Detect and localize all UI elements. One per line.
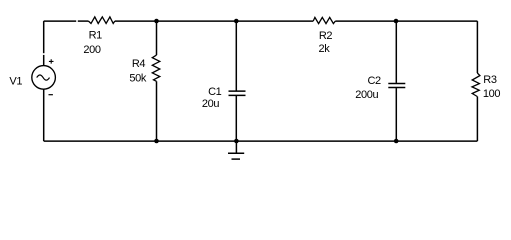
node C1 top junction xyxy=(234,19,239,24)
node R4 bottom junction xyxy=(154,139,159,144)
capacitor C1 xyxy=(229,91,246,95)
voltage source V1 xyxy=(32,66,56,90)
resistor R2 xyxy=(313,17,335,23)
wire top rail right segment xyxy=(335,20,477,22)
wire C2 bottom lead xyxy=(395,88,397,141)
svg-text:50k: 50k xyxy=(129,73,146,85)
svg-text:200u: 200u xyxy=(355,89,378,101)
resistor R3 xyxy=(472,73,480,97)
svg-text:20u: 20u xyxy=(202,98,219,110)
svg-text:C2: C2 xyxy=(368,75,382,87)
node C2 top junction xyxy=(394,19,399,24)
capacitor C2 xyxy=(388,84,405,88)
ground xyxy=(235,141,237,153)
wire right rail lower xyxy=(476,97,478,142)
wire C2 top lead xyxy=(395,21,397,83)
wire C1 top lead xyxy=(235,21,237,90)
svg-text:2k: 2k xyxy=(319,43,331,55)
wire left rail lower xyxy=(43,89,45,141)
wire top rail middle segment xyxy=(115,20,313,22)
V1 minus sign xyxy=(49,94,53,96)
V1 plus sign xyxy=(49,59,54,63)
wire V1 top pin xyxy=(43,55,45,66)
wire R4 bottom lead xyxy=(156,81,158,141)
resistor R1 xyxy=(89,17,115,24)
svg-text:100: 100 xyxy=(483,88,500,100)
wire R1 left lead xyxy=(78,20,89,22)
wire top rail left segment xyxy=(44,20,76,22)
wire right rail upper xyxy=(476,21,478,73)
svg-text:R1: R1 xyxy=(89,30,103,42)
node C2 bottom junction xyxy=(394,139,399,144)
wire C1 bottom lead xyxy=(235,96,237,141)
svg-text:200: 200 xyxy=(83,44,100,56)
wire R4 top lead xyxy=(156,21,158,55)
wire bottom rail xyxy=(44,140,478,142)
svg-text:R4: R4 xyxy=(132,58,146,70)
resistor R4 xyxy=(152,55,160,81)
node ground junction xyxy=(234,139,239,144)
svg-text:V1: V1 xyxy=(9,76,22,88)
svg-text:C1: C1 xyxy=(208,86,222,98)
svg-text:R3: R3 xyxy=(483,74,497,86)
svg-text:R2: R2 xyxy=(319,30,333,42)
wire left rail upper xyxy=(43,21,45,53)
node R4 top junction xyxy=(154,19,159,24)
